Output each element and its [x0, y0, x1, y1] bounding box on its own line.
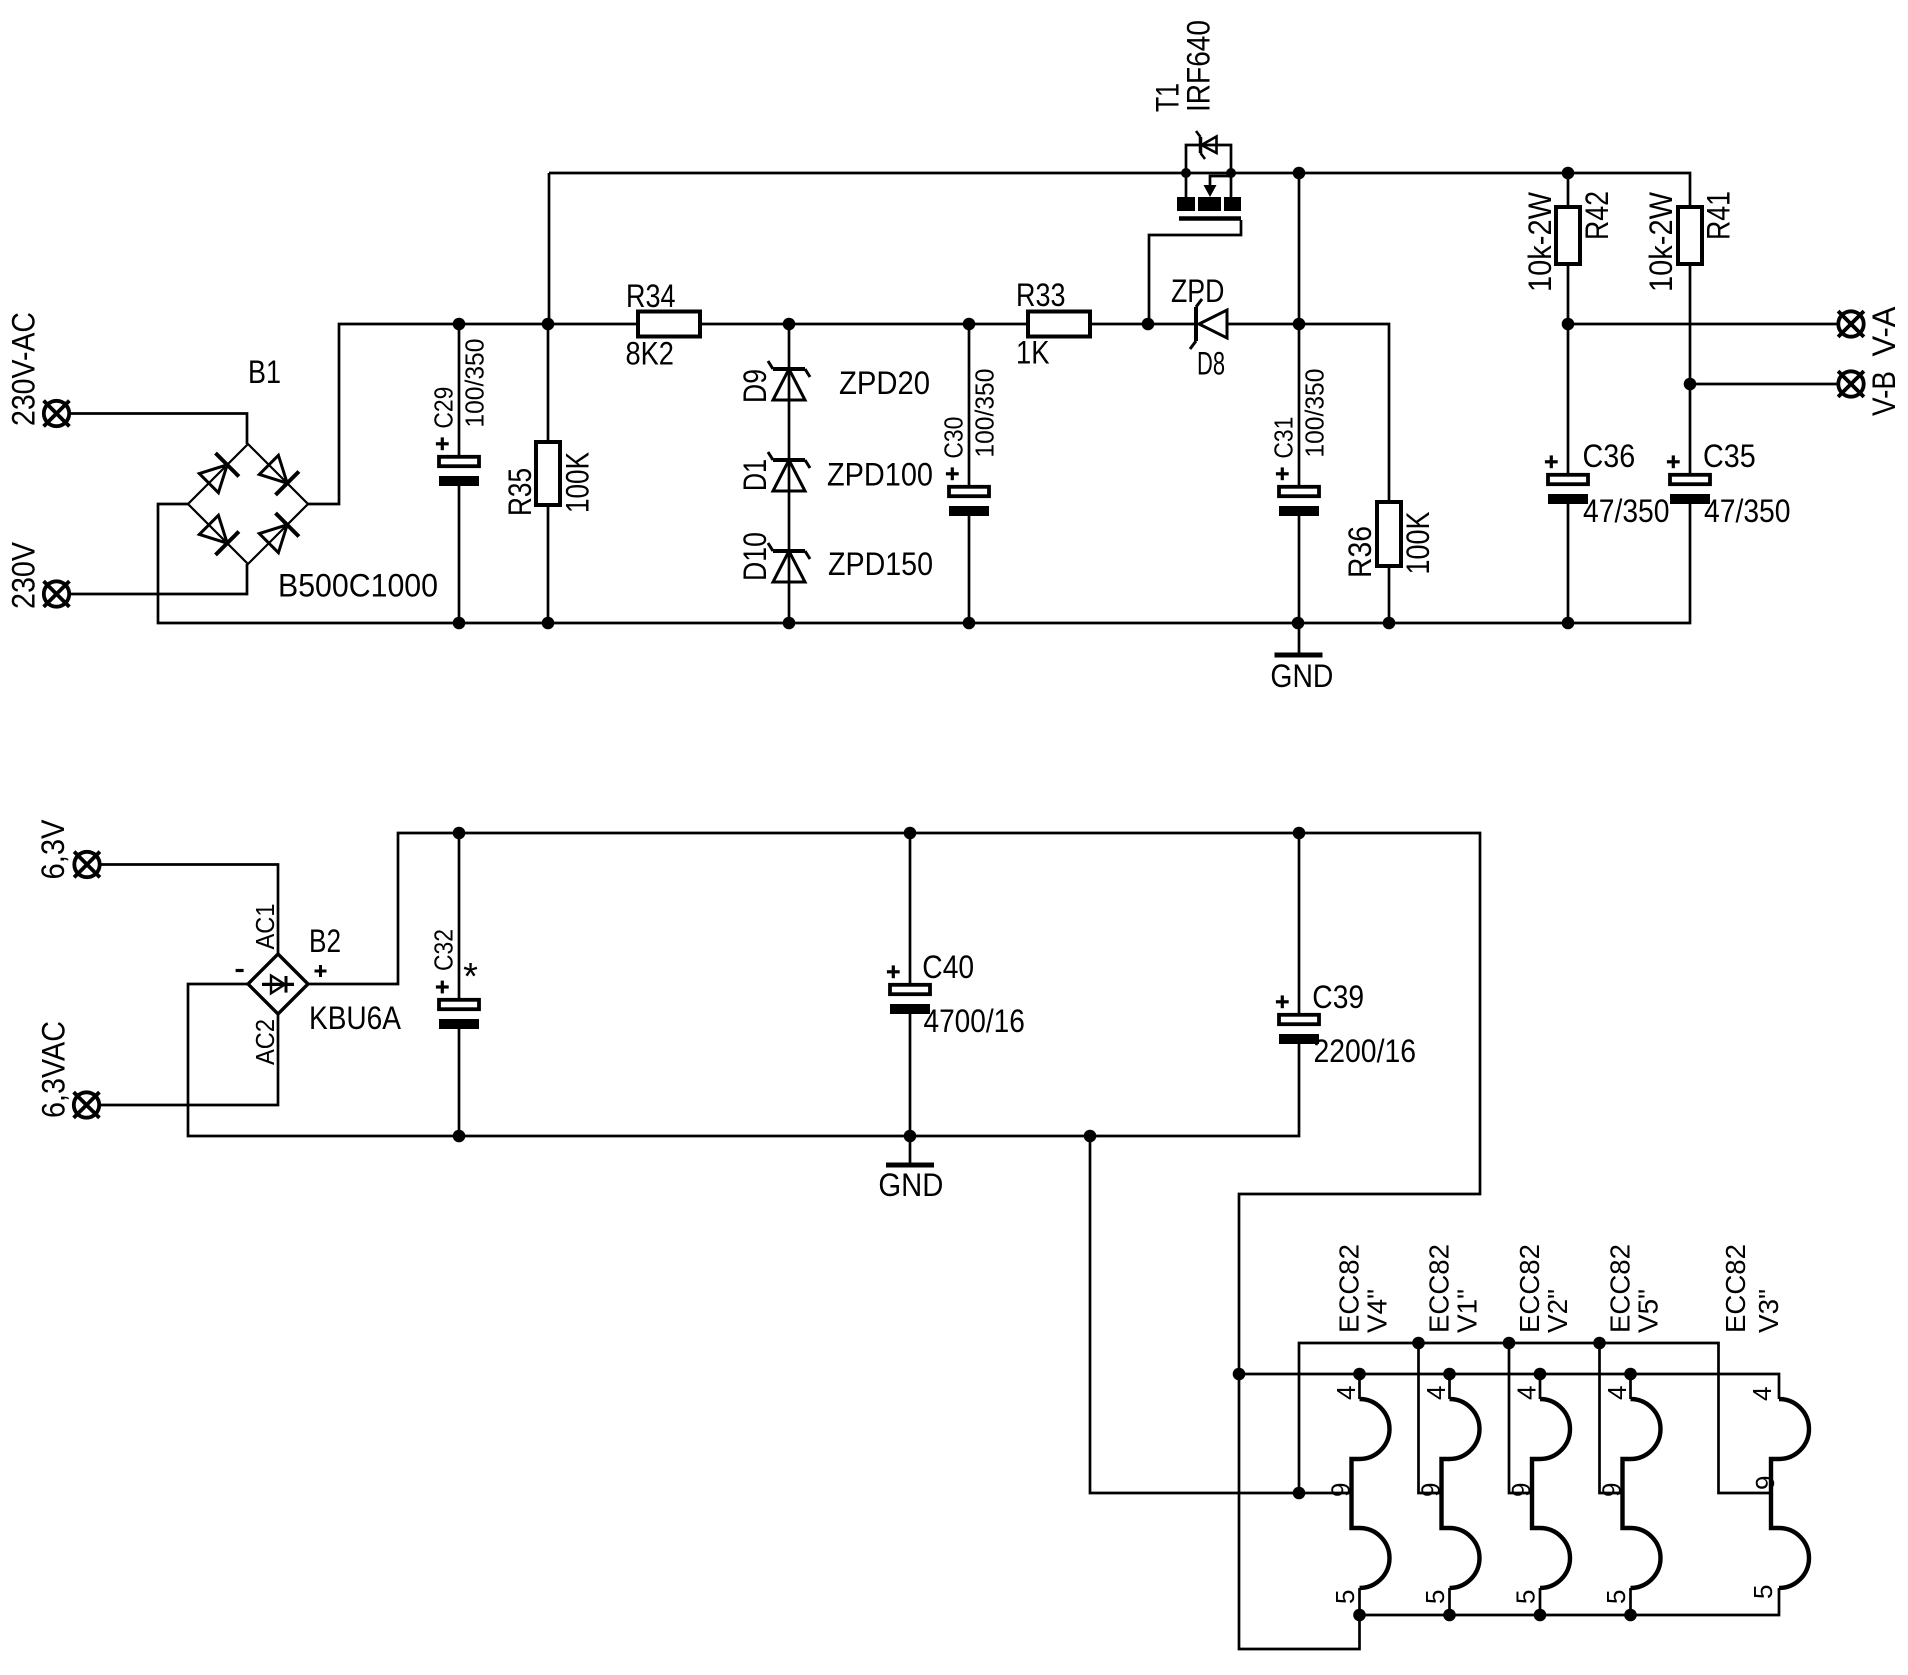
svg-text:V3": V3" — [1753, 1289, 1784, 1333]
svg-text:10k-2W: 10k-2W — [1522, 191, 1558, 292]
svg-text:ECC82: ECC82 — [1605, 1244, 1636, 1333]
svg-text:V5": V5" — [1633, 1289, 1664, 1333]
svg-text:R35: R35 — [502, 468, 538, 516]
svg-text:1K: 1K — [1016, 335, 1050, 371]
svg-text:5: 5 — [1601, 1590, 1631, 1604]
svg-text:230V: 230V — [6, 541, 42, 609]
svg-text:C31: C31 — [1269, 417, 1299, 459]
svg-text:C29: C29 — [429, 387, 459, 429]
svg-text:5: 5 — [1511, 1590, 1541, 1604]
svg-text:4: 4 — [1602, 1386, 1632, 1400]
svg-text:V-B: V-B — [1866, 371, 1902, 416]
svg-text:4: 4 — [1747, 1387, 1777, 1401]
svg-text:ZPD20: ZPD20 — [839, 365, 930, 401]
svg-text:V4": V4" — [1362, 1289, 1393, 1333]
svg-text:GND: GND — [1270, 658, 1333, 694]
svg-text:D10: D10 — [737, 532, 773, 581]
svg-text:D1: D1 — [737, 459, 773, 491]
svg-text:ECC82: ECC82 — [1514, 1244, 1545, 1333]
svg-text:B1: B1 — [248, 354, 281, 390]
svg-text:V2": V2" — [1542, 1289, 1573, 1333]
svg-text:9: 9 — [1750, 1476, 1780, 1490]
svg-text:AC2: AC2 — [250, 1019, 280, 1065]
svg-text:2200/16: 2200/16 — [1314, 1033, 1417, 1069]
svg-text:4: 4 — [1512, 1386, 1542, 1400]
svg-text:100/350: 100/350 — [969, 369, 999, 458]
svg-text:R36: R36 — [1342, 526, 1378, 578]
svg-text:V1": V1" — [1452, 1289, 1483, 1333]
svg-text:C30: C30 — [939, 417, 969, 459]
svg-text:9: 9 — [1597, 1483, 1627, 1497]
svg-text:100/350: 100/350 — [1299, 369, 1329, 458]
svg-text:R41: R41 — [1701, 191, 1737, 240]
svg-text:ECC82: ECC82 — [1720, 1244, 1751, 1333]
svg-text:5: 5 — [1330, 1590, 1360, 1604]
svg-text:C32: C32 — [429, 929, 459, 971]
svg-text:4: 4 — [1421, 1386, 1451, 1400]
svg-text:8K2: 8K2 — [626, 335, 674, 371]
svg-text:6,3V: 6,3V — [35, 819, 71, 880]
svg-text:9: 9 — [1506, 1483, 1536, 1497]
svg-text:R42: R42 — [1579, 191, 1615, 240]
svg-text:AC1: AC1 — [250, 904, 280, 950]
svg-text:47/350: 47/350 — [1704, 493, 1791, 529]
svg-text:IRF640: IRF640 — [1181, 20, 1217, 112]
svg-text:100K: 100K — [1400, 512, 1436, 575]
svg-text:C36: C36 — [1583, 438, 1636, 474]
svg-text:9: 9 — [1416, 1483, 1446, 1497]
svg-text:ECC82: ECC82 — [1424, 1244, 1455, 1333]
svg-text:47/350: 47/350 — [1583, 493, 1670, 529]
svg-text:ZPD100: ZPD100 — [827, 456, 933, 492]
svg-text:ZPD: ZPD — [1171, 273, 1224, 309]
svg-text:100K: 100K — [560, 452, 596, 513]
svg-text:6,3VAC: 6,3VAC — [36, 1021, 72, 1118]
svg-text:GND: GND — [878, 1167, 943, 1203]
svg-text:10k-2W: 10k-2W — [1643, 191, 1679, 292]
svg-text:C40: C40 — [922, 949, 974, 985]
svg-text:100/350: 100/350 — [459, 339, 489, 428]
svg-text:V-A: V-A — [1866, 306, 1902, 357]
svg-text:ZPD150: ZPD150 — [828, 546, 933, 582]
svg-text:230V-AC: 230V-AC — [6, 312, 42, 426]
svg-text:4700/16: 4700/16 — [924, 1003, 1025, 1039]
svg-text:C35: C35 — [1703, 438, 1756, 474]
svg-text:KBU6A: KBU6A — [309, 1000, 402, 1036]
svg-text:C39: C39 — [1312, 979, 1364, 1015]
svg-text:4: 4 — [1331, 1386, 1361, 1400]
svg-text:B2: B2 — [309, 923, 341, 959]
svg-text:R33: R33 — [1016, 277, 1066, 313]
svg-text:5: 5 — [1420, 1590, 1450, 1604]
svg-text:*: * — [463, 956, 478, 998]
svg-text:D8: D8 — [1197, 346, 1225, 382]
svg-text:ECC82: ECC82 — [1334, 1244, 1365, 1333]
svg-text:R34: R34 — [626, 278, 676, 314]
svg-text:B500C1000: B500C1000 — [278, 568, 438, 604]
svg-text:5: 5 — [1748, 1585, 1778, 1599]
svg-text:9: 9 — [1326, 1483, 1356, 1497]
svg-text:D9: D9 — [737, 369, 773, 403]
